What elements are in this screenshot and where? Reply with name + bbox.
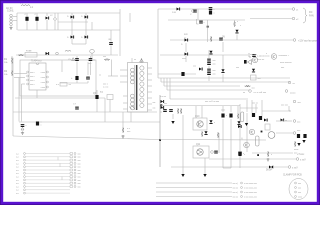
svg-text:x-x: x-x — [16, 160, 19, 162]
svg-text:x-x: x-x — [16, 170, 19, 172]
svg-text:x xxx xxxx-xxx: x xxx xxxx-xxx — [244, 196, 257, 198]
svg-text:5KUP: 5KUP — [266, 169, 273, 172]
svg-text:x xxx: x xxx — [41, 82, 46, 84]
svg-text:x.xx xx: x.xx xx — [160, 96, 166, 98]
svg-text:x: x — [237, 21, 238, 23]
svg-text:xx: xx — [134, 59, 136, 61]
svg-text:xxx x(: xxx x( — [233, 192, 239, 194]
svg-text:x xxx: x xxx — [41, 72, 46, 74]
svg-text:x: x — [226, 115, 227, 117]
svg-text:xx: xx — [93, 60, 95, 62]
svg-text:x xxV: x xxV — [292, 168, 298, 170]
svg-text:x xxx xxxx-xxx: x xxx xxxx-xxx — [244, 187, 257, 189]
svg-text:xxx x: xxx x — [30, 80, 35, 82]
svg-text:+?xxxx: +?xxxx — [297, 154, 305, 156]
svg-text:Q11: Q11 — [196, 144, 201, 146]
svg-text:xxx: xxx — [78, 157, 81, 159]
svg-text:xxx x(: xxx x( — [233, 196, 239, 198]
svg-text:x xxV: x xxV — [300, 160, 306, 162]
svg-text:x: x — [240, 25, 241, 27]
svg-text:x: x — [26, 125, 27, 127]
svg-text:xxx: xxx — [298, 183, 301, 185]
svg-text:xxx x.xV xx xxx: xxx x.xV xx xxx — [205, 101, 220, 103]
svg-text:xxxx: xxxx — [182, 58, 186, 60]
svg-text:x-x: x-x — [16, 173, 19, 175]
svg-text:xxx: xxx — [153, 102, 156, 104]
svg-text:xxxx xx: xxxx xx — [257, 59, 265, 61]
svg-text:x-x: x-x — [16, 183, 19, 185]
svg-text:x-x: x-x — [16, 186, 19, 188]
svg-text:Q: Q — [241, 138, 243, 140]
svg-text:xxx: xxx — [213, 60, 216, 62]
svg-text:x-x: x-x — [16, 177, 19, 179]
svg-text:FUSE: FUSE — [26, 51, 32, 53]
svg-text:xxx xxx: xxx xxx — [281, 105, 289, 107]
svg-text:xxx: xxx — [78, 180, 81, 182]
svg-text:xxx: xxx — [213, 70, 216, 72]
svg-text:xxx x: xxx x — [30, 72, 35, 74]
svg-text:xx: xx — [160, 112, 162, 114]
svg-text:xxx: xxx — [78, 153, 81, 155]
svg-text:CLAMP FOR PCB: CLAMP FOR PCB — [283, 174, 302, 177]
svg-text:xxx: xxx — [78, 173, 81, 175]
svg-text:x-x: x-x — [16, 193, 19, 195]
svg-text:xxx x(: xxx x( — [233, 187, 239, 189]
svg-text:xxx: xxx — [193, 66, 196, 68]
svg-text:xxxxxxxx +: xxxxxxxx + — [279, 55, 290, 57]
svg-text:xxx: xxx — [78, 170, 81, 172]
svg-text:xxx x(: xxx x( — [233, 183, 239, 185]
svg-text:xxx: xxx — [213, 64, 216, 66]
svg-text:x.x(xxx) xxxx: x.x(xxx) xxxx — [257, 56, 270, 58]
svg-text:xxx: xxx — [78, 177, 81, 179]
svg-text:xxx: xxx — [78, 163, 81, 165]
svg-text:xxx: xxx — [298, 192, 301, 194]
svg-text:x-x: x-x — [16, 157, 19, 159]
svg-text:xxxx: xxxx — [298, 196, 302, 198]
svg-text:x xxx xxxx-xxx: x xxx xxxx-xxx — [244, 183, 257, 185]
svg-text:xxx: xxx — [78, 167, 81, 169]
svg-text:x xxx: x xxx — [41, 77, 46, 79]
svg-text:xxx: xxx — [298, 187, 301, 189]
svg-text:x xxx xxxx-xxx: x xxx xxxx-xxx — [244, 192, 257, 194]
svg-text:x xxx: x xxx — [41, 87, 46, 89]
svg-text:CON1: CON1 — [7, 10, 14, 13]
svg-text:xxx: xxx — [78, 183, 81, 185]
svg-text:x.x x xxS xxx: x.x x xxS xxx — [254, 92, 268, 94]
svg-text:xxx x: xxx x — [30, 76, 35, 78]
svg-text:xxx: xxx — [153, 108, 156, 110]
svg-text:FAN: FAN — [309, 15, 314, 18]
svg-text:x: x — [214, 13, 215, 15]
svg-text:xx x: xx x — [88, 63, 91, 65]
svg-text:xxx xxx: xxx xxx — [250, 54, 258, 56]
svg-text:+12V aux fan power: +12V aux fan power — [298, 40, 319, 43]
svg-text:xxx: xxx — [78, 160, 81, 162]
svg-text:x-x: x-x — [16, 167, 19, 169]
svg-text:xxx: xxx — [78, 186, 81, 188]
svg-text:xxxxx: xxxxx — [290, 93, 296, 95]
svg-text:AC IN: AC IN — [6, 7, 13, 10]
svg-text:xxx xx: xxx xx — [252, 103, 259, 105]
svg-text:xxx: xxx — [213, 74, 216, 76]
svg-text:x-x: x-x — [16, 190, 19, 192]
svg-text:x: x — [41, 125, 42, 127]
svg-text:TL494 xxx: TL494 xxx — [31, 61, 42, 63]
svg-text:x: x — [204, 22, 205, 24]
svg-text:x-x: x-x — [16, 163, 19, 165]
svg-text:xxx: xxx — [236, 67, 239, 69]
svg-text:x: x — [41, 122, 42, 124]
svg-text:x: x — [214, 9, 215, 11]
svg-text:xxx x: xxx x — [30, 84, 35, 86]
svg-text:x-x: x-x — [16, 180, 19, 182]
svg-text:xxx: xxx — [103, 56, 106, 58]
svg-text:xxxx xxxxxx: xxxx xxxxxx — [280, 62, 292, 64]
svg-text:Q10: Q10 — [195, 116, 200, 118]
svg-text:x-x: x-x — [16, 153, 19, 155]
svg-text:xx: xx — [99, 75, 101, 77]
